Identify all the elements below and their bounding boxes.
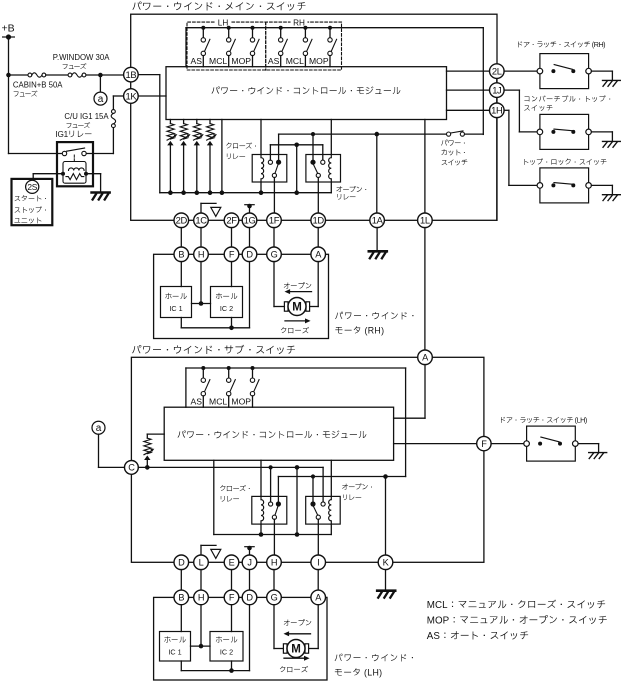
svg-text:F: F	[229, 593, 235, 603]
wire sub switch feed bus	[186, 367, 406, 369]
resistor R4 with arrow	[209, 120, 211, 124]
wire close common up (sub)	[277, 477, 279, 502]
wire open relay common up	[312, 134, 314, 160]
svg-text:1L: 1L	[420, 215, 430, 226]
wire door latch LH to ground	[578, 443, 598, 445]
wire between fuses	[46, 74, 68, 76]
hall IC2 (LH)	[210, 632, 243, 662]
svg-text:AS: AS	[268, 56, 280, 66]
door latch switch LH	[527, 426, 576, 461]
svg-text:リレー: リレー	[342, 493, 362, 502]
wire common line to 1A	[376, 134, 378, 213]
connector 1C	[194, 213, 209, 228]
connector F (sub)	[477, 436, 491, 450]
wire IC1-IC2 link	[192, 303, 211, 305]
svg-text:オープン: オープン	[283, 619, 312, 628]
relay close (main) box	[252, 155, 287, 183]
wire open coil to ground bus (sub)	[330, 524, 332, 534]
svg-text:H: H	[198, 593, 204, 603]
wire module to open relay coil (sub)	[330, 460, 332, 496]
svg-text:D: D	[246, 250, 253, 260]
connector E (sub row)	[224, 555, 239, 570]
svg-text:クローズ: クローズ	[280, 326, 310, 335]
svg-text:1G: 1G	[244, 215, 256, 226]
svg-text:IC 2: IC 2	[220, 648, 233, 657]
svg-text:2S: 2S	[27, 182, 37, 192]
connector K (sub row)	[378, 555, 393, 570]
svg-text:CABIN+B 50A: CABIN+B 50A	[13, 80, 63, 89]
svg-text:M: M	[291, 644, 301, 656]
relay open contacts	[310, 160, 315, 165]
relay close contacts	[268, 160, 272, 164]
wire module to open relay coil	[330, 120, 332, 155]
wire a to C	[98, 434, 100, 467]
arrow marker above L	[200, 545, 202, 555]
svg-text:パワー・ウインド・メイン・スイッチ: パワー・ウインド・メイン・スイッチ	[132, 1, 307, 13]
svg-text:ドア・ラッチ・スイッチ (LH): ドア・ラッチ・スイッチ (LH)	[499, 416, 587, 425]
motor brush left	[284, 302, 288, 311]
wire 1L to A (sub)	[424, 228, 426, 350]
svg-text:パワー・ウインド・コントロール・モジュール: パワー・ウインド・コントロール・モジュール	[211, 86, 401, 96]
svg-text:L: L	[199, 558, 204, 568]
motor M	[287, 640, 305, 658]
svg-text:I: I	[317, 558, 319, 568]
power window motor LH box	[154, 597, 327, 680]
wire middle vertical to ground bus (main)	[296, 145, 298, 193]
node a (sub)	[92, 421, 105, 434]
wire module 5th pin to bus	[221, 120, 223, 193]
wire close moving contact to H (sub)	[273, 519, 275, 555]
connector motor LH pin G	[267, 590, 282, 605]
svg-text:1C: 1C	[195, 215, 207, 226]
svg-text:AS: AS	[191, 56, 203, 66]
arrow marker above 1C	[200, 203, 202, 213]
svg-text:G: G	[271, 250, 278, 260]
wire open moving contact to I (sub)	[317, 519, 319, 555]
wire relay common line (sub)	[278, 476, 405, 478]
svg-text:MOP: MOP	[309, 56, 329, 66]
svg-text:1A: 1A	[372, 215, 384, 226]
wire A to module (sub)	[424, 365, 426, 419]
switch MCL (sub, x=228.7)	[227, 366, 231, 370]
wire 1J to convertible top switch	[504, 89, 519, 91]
relay close coil (sub)	[261, 496, 264, 524]
relay open (sub) box	[306, 496, 341, 524]
wire sub bus right vertical	[405, 368, 407, 477]
relay IG1 box	[57, 142, 93, 186]
relay close (sub) box	[252, 496, 287, 524]
connector 1H	[490, 103, 505, 118]
wire IC bottoms bus (RH)	[180, 318, 182, 328]
relay close contacts (sub)	[269, 502, 273, 506]
svg-text:a: a	[96, 423, 102, 434]
svg-text:AS: AS	[191, 397, 203, 407]
connector motor LH pin A	[311, 590, 326, 605]
connector I (sub row)	[311, 555, 326, 570]
connector L (sub row)	[194, 555, 209, 570]
motor brush left	[283, 644, 287, 653]
svg-text:クローズ・: クローズ・	[225, 142, 258, 151]
connector motor LH pin F	[224, 590, 239, 605]
svg-text:パワー・ウインド・: パワー・ウインド・	[335, 311, 418, 321]
svg-text:J: J	[247, 558, 251, 568]
relay open contacts (sub)	[310, 501, 315, 506]
wire IC1-IC2 link (LH)	[191, 645, 211, 647]
resistor R3 with arrow	[196, 120, 198, 124]
connector D (sub row)	[174, 555, 189, 570]
svg-text:IG1リレー: IG1リレー	[55, 130, 92, 139]
wires sub row to motor connectors (LH)	[180, 570, 182, 591]
svg-text:2D: 2D	[176, 215, 188, 226]
wire 1A to ground	[376, 228, 378, 251]
svg-text:IC 1: IC 1	[169, 304, 182, 313]
wire B to Hall IC1	[180, 262, 182, 287]
svg-text:モータ (RH): モータ (RH)	[335, 325, 385, 335]
close direction label (LH)	[284, 657, 306, 659]
wire bus to power cut switch (right vertical)	[482, 28, 484, 135]
relay IG1 coil box	[63, 162, 86, 184]
svg-text:G: G	[271, 593, 278, 603]
wire middle vertical (sub)	[296, 467, 298, 534]
svg-text:1B: 1B	[126, 69, 137, 80]
wire ground bus (sub)	[214, 534, 331, 536]
wire F to Hall IC2	[231, 262, 233, 287]
svg-text:+B: +B	[2, 23, 15, 35]
resistor R5 (sub) with arrow	[147, 433, 164, 435]
wire IC bottoms bus (LH)	[180, 661, 182, 671]
switch AS (main, x=203.3)	[201, 26, 205, 30]
svg-text:ホール: ホール	[163, 635, 186, 644]
svg-text:コンバーチブル・トップ・: コンバーチブル・トップ・	[523, 95, 613, 104]
wire fuse to 1B	[86, 74, 124, 76]
connector 2D	[174, 213, 189, 228]
svg-text:MCL: MCL	[286, 56, 304, 66]
switch MCL (main, x=305.4)	[303, 26, 307, 30]
wire module to 1H	[447, 109, 490, 111]
svg-text:フューズ: フューズ	[66, 122, 91, 130]
fuse C/U IG1 15A	[112, 110, 116, 114]
wire G to motor (LH)	[273, 605, 275, 649]
svg-text:1J: 1J	[492, 84, 501, 95]
ground 1A	[369, 250, 387, 253]
wire open relay coil to ground bus	[330, 182, 332, 193]
wire close relay moving contact to 1F	[273, 178, 275, 214]
wire 1H to top lock switch	[504, 109, 509, 111]
svg-text:ストップ・: ストップ・	[14, 205, 49, 214]
wire close relay NO contact up	[269, 145, 271, 160]
svg-text:パワー・ウインド・: パワー・ウインド・	[334, 653, 417, 663]
svg-text:a: a	[98, 94, 104, 105]
sub switch frame	[131, 357, 484, 562]
wire relay coil to ground	[86, 173, 101, 175]
wire relay common line (main)	[279, 133, 447, 135]
svg-text:1H: 1H	[491, 105, 502, 116]
wire D to IC bus (LH)	[249, 605, 251, 671]
wire 2L-1J-1H chain	[496, 78, 498, 82]
wire D to IC bus	[249, 262, 251, 328]
wire close relay common up	[278, 134, 280, 160]
svg-text:MCL: MCL	[209, 397, 227, 407]
svg-text:リレー: リレー	[336, 193, 356, 202]
svg-text:クローズ: クローズ	[279, 665, 309, 674]
svg-text:1D: 1D	[313, 215, 325, 226]
switch MOP (main, x=252.5)	[251, 26, 255, 30]
connector 1G	[242, 213, 257, 228]
switch AS (main, x=280.7)	[279, 26, 283, 30]
svg-text:C/U IG1 15A: C/U IG1 15A	[64, 112, 109, 121]
connector motor LH pin H	[194, 590, 209, 605]
wire module to close relay coil (sub)	[260, 460, 262, 496]
wire ground bus (main)	[160, 192, 331, 194]
svg-text:H: H	[198, 250, 204, 260]
wire +B vertical	[8, 37, 10, 154]
wire close NO up (sub)	[270, 467, 272, 502]
connector 1F	[267, 213, 282, 228]
convertible top switch	[540, 114, 589, 149]
connector motor RH pin H	[194, 247, 209, 262]
connector motor RH pin G	[267, 247, 282, 262]
svg-text:スイッチ: スイッチ	[523, 104, 553, 113]
relay open coil	[329, 155, 332, 183]
wire fuse to relay contact	[112, 128, 114, 154]
wire close relay coil to ground bus	[260, 182, 262, 193]
wire A to motor (LH)	[317, 605, 319, 649]
hall IC1 (LH)	[160, 632, 191, 662]
wire top lock switch to ground	[591, 184, 612, 186]
switch MOP (sub, x=252.5)	[251, 366, 255, 370]
connector motor RH pin B	[174, 247, 189, 262]
wire convertible top switch to ground	[591, 131, 612, 133]
connector H (sub row)	[267, 555, 282, 570]
connector 2S	[26, 180, 39, 193]
wire module to 2L	[447, 70, 490, 72]
svg-text:H: H	[271, 558, 277, 568]
svg-text:モータ (LH): モータ (LH)	[334, 667, 382, 677]
wire 1K to module	[138, 95, 166, 97]
svg-text:パワー・ウインド・サブ・スイッチ: パワー・ウインド・サブ・スイッチ	[131, 344, 296, 356]
switch AS (sub, x=203.3)	[201, 366, 205, 370]
svg-text:D: D	[246, 593, 253, 603]
svg-text:パワー・ウインド・コントロール・モジュール: パワー・ウインド・コントロール・モジュール	[177, 430, 367, 440]
connector 2L	[490, 64, 505, 79]
svg-text:ドア・ラッチ・スイッチ (RH): ドア・ラッチ・スイッチ (RH)	[516, 40, 605, 49]
svg-text:ホール: ホール	[215, 635, 238, 644]
svg-text:トップ・ロック・スイッチ: トップ・ロック・スイッチ	[522, 157, 607, 166]
ground door latch LH	[589, 452, 607, 454]
svg-text:クローズ・: クローズ・	[219, 484, 252, 493]
svg-text:D: D	[178, 558, 185, 568]
motor M	[288, 298, 306, 316]
wire B to Hall IC1 (LH)	[180, 605, 182, 632]
wire 1H to frame bottom	[496, 118, 498, 221]
wire H to IC link	[200, 262, 202, 304]
wire 1B to resistor bus	[138, 74, 160, 76]
connector motor RH pin D	[242, 247, 257, 262]
wire module to F (sub)	[394, 443, 477, 445]
svg-text:C: C	[128, 463, 135, 473]
svg-text:MCL：マニュアル・クローズ・スイッチ: MCL：マニュアル・クローズ・スイッチ	[427, 599, 606, 611]
svg-text:カット・: カット・	[441, 148, 468, 157]
svg-text:E: E	[229, 558, 235, 568]
power cut switch	[447, 132, 451, 136]
svg-text:RH: RH	[293, 19, 305, 28]
svg-text:MOP: MOP	[231, 56, 251, 66]
svg-text:ユニット: ユニット	[14, 216, 42, 225]
ground IG1 relay	[92, 191, 110, 194]
wire C line (sub NO tie)	[138, 466, 323, 468]
svg-text:オープン・: オープン・	[342, 482, 375, 491]
hall IC2 (RH)	[211, 287, 243, 318]
ground convertible top switch	[603, 140, 621, 142]
ground door latch RH	[603, 79, 621, 81]
control module U2 (sub switch)	[164, 407, 393, 460]
svg-text:ホール: ホール	[215, 292, 238, 301]
motor brush right	[306, 302, 310, 311]
motor brush right	[305, 644, 309, 653]
svg-text:AS：オート・スイッチ: AS：オート・スイッチ	[427, 630, 529, 642]
T-dot marker above J	[249, 548, 251, 556]
ground K	[377, 589, 395, 592]
svg-text:F: F	[481, 439, 487, 449]
svg-text:MOP: MOP	[231, 397, 251, 407]
svg-text:スタート・: スタート・	[14, 194, 49, 203]
ground top lock switch	[603, 194, 621, 196]
wire module to 1J	[447, 89, 490, 91]
svg-text:リレー: リレー	[219, 494, 239, 503]
svg-text:B: B	[178, 250, 184, 260]
svg-text:MCL: MCL	[209, 56, 227, 66]
hall IC1 (RH)	[161, 287, 192, 318]
connector 1D	[311, 213, 326, 228]
wire open relay moving contact to 1D	[317, 178, 319, 214]
wire K to ground	[385, 570, 387, 590]
svg-text:2F: 2F	[226, 215, 237, 226]
svg-text:フューズ: フューズ	[13, 91, 38, 99]
fuse CABIN+B 50A	[28, 73, 32, 77]
svg-text:P.WINDOW 30A: P.WINDOW 30A	[53, 53, 110, 62]
relay open (main) box	[306, 155, 341, 183]
connector C (sub)	[124, 461, 138, 475]
T-dot marker above 1G	[249, 206, 251, 214]
svg-text:スイッチ: スイッチ	[441, 158, 468, 167]
door latch switch RH	[540, 54, 589, 89]
svg-text:LH: LH	[218, 19, 229, 28]
wire main switch feed bus	[186, 27, 483, 29]
svg-text:M: M	[292, 302, 302, 314]
wire +B to relay contact	[9, 153, 63, 155]
wire module to 1L	[424, 120, 426, 214]
wire F to door latch LH	[491, 443, 524, 445]
wire to node a	[99, 75, 101, 92]
connector 1L	[418, 213, 433, 228]
switch MCL (main, x=228.7)	[227, 26, 231, 30]
svg-text:ホール: ホール	[164, 292, 187, 301]
resistor R1 with arrow	[169, 120, 171, 124]
connector motor LH pin B	[174, 590, 189, 605]
connector motor RH pin A	[311, 247, 326, 262]
wire K up to common line	[385, 477, 387, 556]
switch MOP (main, x=330)	[328, 26, 332, 30]
wire A to motor	[317, 262, 319, 307]
wires row1 to motor connectors (RH)	[180, 228, 182, 247]
svg-text:フューズ: フューズ	[62, 63, 87, 71]
close direction label (RH)	[285, 320, 307, 322]
wire H to IC link (LH)	[200, 605, 202, 646]
node a (upper)	[94, 92, 107, 105]
connector 2F	[224, 213, 239, 228]
svg-text:F: F	[229, 250, 235, 260]
connector motor LH pin D	[242, 590, 257, 605]
power window motor RH box	[154, 254, 329, 338]
wire door latch RH to ground	[591, 70, 612, 72]
svg-text:2L: 2L	[492, 65, 502, 76]
wire 2L to door latch switch RH	[504, 70, 537, 72]
resistor R2 with arrow	[183, 120, 185, 124]
wire fuse feed horizontal	[9, 74, 29, 76]
wire 1K to C/U IG1 fuse	[113, 95, 123, 97]
svg-text:IC 2: IC 2	[220, 304, 233, 313]
top lock switch	[540, 168, 589, 203]
svg-text:リレー: リレー	[225, 152, 245, 161]
main switch frame	[131, 14, 497, 220]
wire open common up (sub)	[312, 477, 314, 502]
wire G to motor	[273, 262, 275, 307]
relay close coil	[261, 155, 264, 183]
svg-text:MOP：マニュアル・オープン・スイッチ: MOP：マニュアル・オープン・スイッチ	[427, 615, 608, 627]
control module U1 (main switch)	[166, 67, 447, 120]
connector 1B	[124, 67, 139, 82]
connector 1K	[124, 89, 139, 104]
connector A (sub top)	[418, 350, 433, 365]
svg-text:パワー・: パワー・	[441, 138, 468, 147]
fuse P.WINDOW 30A	[68, 73, 72, 77]
svg-text:IC 1: IC 1	[168, 648, 181, 657]
wire close coil to ground bus (sub)	[260, 524, 262, 534]
connector 1J	[490, 83, 505, 98]
connector 1A	[370, 213, 385, 228]
relay open coil (sub)	[329, 496, 332, 524]
wire F to Hall IC2 (LH)	[231, 605, 233, 632]
dashed box LH/RH switch group	[187, 22, 342, 70]
connector J (sub row)	[242, 555, 257, 570]
svg-text:1F: 1F	[269, 215, 280, 226]
start-stop unit 2S box	[12, 179, 53, 225]
connector motor RH pin F	[224, 247, 239, 262]
svg-text:1K: 1K	[126, 90, 138, 101]
wire relay coil to 2S unit	[33, 173, 63, 175]
wire NO-tie line (main)	[270, 144, 322, 146]
svg-text:オープン: オープン	[283, 281, 312, 290]
relay IG1 contacts	[62, 151, 66, 155]
wire module to close relay coil	[260, 120, 262, 155]
svg-text:B: B	[178, 593, 184, 603]
